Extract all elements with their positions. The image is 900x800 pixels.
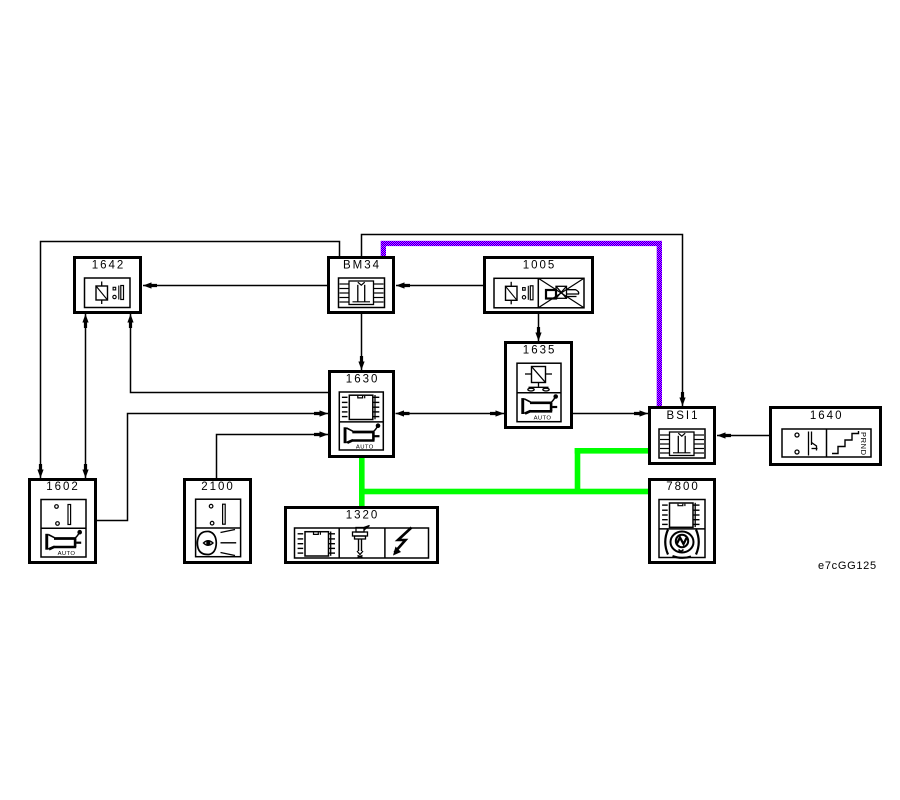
svg-text:1602: 1602 (46, 481, 80, 493)
svg-text:1635: 1635 (523, 345, 557, 357)
svg-text:e7cGG125: e7cGG125 (818, 560, 877, 572)
svg-text:7800: 7800 (666, 481, 700, 493)
svg-text:1630: 1630 (346, 374, 380, 386)
svg-text:BM34: BM34 (343, 260, 381, 272)
svg-text:BSI1: BSI1 (667, 410, 700, 422)
svg-text:1642: 1642 (92, 260, 126, 272)
svg-text:1640: 1640 (810, 410, 844, 422)
svg-text:2100: 2100 (201, 481, 235, 493)
svg-text:PRND: PRND (859, 432, 868, 456)
svg-text:1005: 1005 (523, 260, 557, 272)
svg-text:1320: 1320 (346, 510, 380, 522)
